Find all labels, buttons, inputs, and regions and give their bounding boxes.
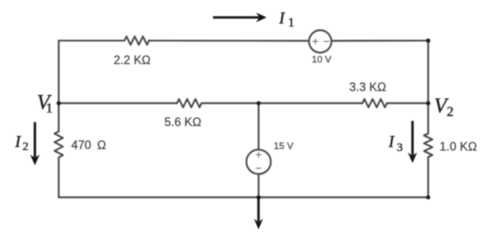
svg-text:15 V: 15 V — [274, 141, 294, 152]
svg-text:3: 3 — [397, 140, 403, 154]
svg-text:I: I — [14, 132, 22, 151]
svg-text:1.0 KΩ: 1.0 KΩ — [440, 140, 478, 154]
svg-text:3.3 KΩ: 3.3 KΩ — [349, 80, 386, 94]
svg-text:I: I — [388, 132, 396, 151]
svg-text:1: 1 — [288, 15, 295, 30]
svg-text:2.2 KΩ: 2.2 KΩ — [114, 53, 151, 67]
svg-text:2: 2 — [23, 139, 29, 153]
svg-text:5.6 KΩ: 5.6 KΩ — [164, 115, 201, 129]
svg-text:2: 2 — [447, 105, 454, 120]
svg-text:10 V: 10 V — [312, 54, 332, 65]
svg-text:470 Ω: 470 Ω — [71, 138, 106, 152]
svg-text:1: 1 — [46, 102, 53, 117]
svg-text:I: I — [278, 8, 286, 27]
